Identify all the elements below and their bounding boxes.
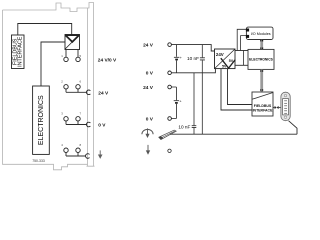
terminal row 2,6 (64, 85, 68, 89)
plug connection symbol (273, 107, 275, 109)
connector shield to rail (289, 121, 298, 135)
earth rail (170, 133, 297, 135)
wire converter to electronics box (41, 42, 65, 86)
data contacts link electronics to fieldbus (260, 69, 263, 92)
svg-text:0 V: 0 V (146, 71, 154, 77)
supply labels column (143, 42, 154, 122)
svg-text:FIELDBUS: FIELDBUS (254, 104, 272, 108)
5V rail to electronics with risers to I/O modules (235, 50, 248, 52)
svg-text:24 V: 24 V (143, 85, 154, 91)
svg-text:0 V: 0 V (98, 123, 106, 129)
I/O module supply pads (246, 29, 249, 32)
supply terminal 0V top (168, 71, 172, 75)
module 750-333 housing outline (3, 3, 95, 170)
svg-text:5V: 5V (229, 59, 234, 63)
fieldbus interface box (schematic) with isolation diagonal (252, 92, 273, 116)
svg-text:0 V: 0 V (146, 116, 154, 122)
wire fieldbus box to converter (18, 24, 72, 36)
supply terminal 24V top (168, 43, 172, 47)
svg-text:24 V/0 V: 24 V/0 V (98, 57, 117, 63)
terminal 1 (64, 57, 68, 61)
shield busbar symbol (159, 130, 176, 139)
converter 5V wires to fieldbus interface (221, 69, 252, 110)
svg-text:ELECTRONICS: ELECTRONICS (249, 58, 273, 62)
svg-text:24V: 24V (216, 52, 224, 57)
supply terminal 24V bottom (168, 85, 172, 89)
svg-text:INTERFACE: INTERFACE (18, 36, 24, 67)
dc-dc converter 24V/5V (215, 49, 236, 69)
wire 0V to converter (171, 69, 215, 73)
svg-text:5V: 5V (222, 65, 227, 69)
capacitor C1 10nF with line 24V to rail (200, 45, 205, 135)
svg-text:750-333: 750-333 (32, 159, 45, 163)
module contact strip edge (87, 8, 95, 166)
earth arrow below (146, 145, 150, 155)
svg-text:24 V: 24 V (143, 42, 154, 48)
fieldbus interface box U1 (module) (12, 35, 25, 69)
terminal 5 (76, 57, 80, 61)
svg-text:24 V: 24 V (98, 91, 109, 97)
svg-text:I/O Modules: I/O Modules (251, 32, 271, 36)
power jumper contact row3 (86, 122, 90, 127)
svg-text:INTERFACE: INTERFACE (253, 109, 274, 113)
electronics box (module) (33, 86, 50, 154)
D-sub fieldbus connector (281, 92, 290, 121)
battery source 2 (171, 87, 179, 119)
direct earthing symbol (142, 128, 153, 138)
svg-text:ELECTRONICS: ELECTRONICS (38, 95, 45, 145)
battery source 1 (174, 45, 179, 73)
terminal row 3,7 (64, 117, 68, 121)
earth arrow row4 (98, 150, 103, 159)
terminal row 4,8 (64, 148, 68, 152)
electronics box (schematic) (248, 49, 274, 69)
dc-dc converter symbol (module) (65, 35, 80, 50)
power jumper contact row4 (86, 154, 90, 159)
I/O modules box (246, 27, 273, 39)
capacitor C2 10nF with line 0V to rail (192, 73, 197, 134)
data contacts link I/O to electronics (260, 40, 263, 50)
shield terminal circle (168, 149, 171, 152)
wire 24V to converter (171, 45, 214, 51)
svg-text:10 nF: 10 nF (187, 56, 199, 61)
converter legs to terminals 1,5 (66, 50, 78, 58)
svg-text:10 nF: 10 nF (178, 124, 190, 129)
supply terminal 0V bottom (168, 117, 172, 121)
power jumper contact row2 (86, 90, 90, 95)
